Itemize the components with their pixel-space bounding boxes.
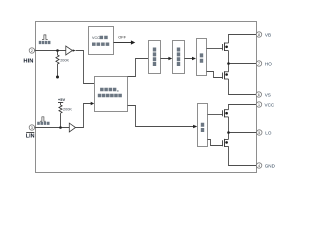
- svg-text:HIN: HIN: [23, 58, 33, 64]
- wire GND rail: [229, 146, 257, 165]
- wire U2 bottom output to low-side driver with arrow: [128, 106, 198, 129]
- svg-text:7: 7: [258, 62, 260, 66]
- node HO junction: [227, 62, 230, 65]
- GND label: [265, 163, 276, 168]
- wire VCC rail: [229, 105, 257, 110]
- VB label: [265, 32, 271, 37]
- resistor R1 200K: [56, 51, 59, 77]
- svg-text:VB: VB: [265, 32, 271, 37]
- pin 8 VB terminal: [256, 32, 261, 37]
- svg-text:6: 6: [258, 93, 260, 97]
- svg-text:+5V: +5V: [58, 97, 66, 102]
- svg-text:4: 4: [258, 164, 260, 168]
- svg-text:5: 5: [258, 131, 260, 135]
- LO label: [265, 130, 272, 135]
- pin 7 HO terminal: [256, 61, 261, 66]
- R2 value 200K: [63, 108, 72, 112]
- wire HO rail: [229, 51, 257, 72]
- node LO junction: [227, 131, 230, 134]
- svg-text:LO: LO: [265, 130, 272, 135]
- wire U6 to Q4 gate (stepped): [208, 140, 223, 146]
- wire HIN to buffer: [35, 50, 66, 52]
- svg-text:HO: HO: [265, 61, 272, 66]
- wire A1 to logic box: [76, 51, 95, 84]
- svg-text:OFF: OFF: [118, 35, 126, 40]
- VS label: [265, 92, 271, 97]
- pin 4 GND terminal: [256, 163, 261, 168]
- VCC label: [265, 102, 275, 107]
- wire U5 to Q1 gate: [207, 48, 223, 50]
- pulse input symbol (HIN): [42, 35, 48, 40]
- svg-text:GND: GND: [265, 163, 276, 168]
- R1 ground dot: [56, 76, 59, 79]
- arrow U4 to U5: [185, 57, 197, 60]
- pin 3 LIN terminal: [29, 125, 34, 130]
- OFF output arrow: [114, 35, 136, 45]
- transistor Q4 (low-side lower MOSFET): [223, 139, 229, 147]
- IC outer border: [36, 22, 257, 173]
- block U5: high-side output driver 输出: [197, 39, 207, 76]
- wire LIN to buffer: [35, 127, 70, 129]
- wire U6 to Q3 gate: [208, 114, 223, 116]
- buffer A1 (HIN): [66, 46, 76, 55]
- block U6: low-side output driver 输出: [198, 104, 208, 147]
- pulse input symbol (LIN): [40, 117, 46, 121]
- pin 6 VS terminal: [256, 92, 261, 97]
- wire U2 top output to level shifter: [128, 59, 149, 77]
- svg-text:2: 2: [31, 49, 33, 53]
- svg-text:8: 8: [258, 33, 260, 37]
- LIN label (active low, overline): [26, 133, 35, 140]
- transistor Q3 (low-side upper MOSFET): [223, 109, 229, 117]
- svg-text:VS: VS: [265, 92, 271, 97]
- resistor R2 200K pull-up: [59, 105, 62, 128]
- HIN label: [23, 58, 33, 64]
- HO label: [265, 61, 272, 66]
- pin 5 LO terminal: [257, 130, 262, 135]
- block U4: pulse filter 脉冲滤波: [173, 41, 185, 74]
- transistor Q2 (high-side lower MOSFET): [223, 71, 229, 79]
- svg-text:VCC: VCC: [265, 102, 275, 107]
- label 逻辑输入 (HIN): [39, 41, 51, 44]
- R1 value 200K: [60, 58, 69, 62]
- svg-text:VCC: VCC: [92, 36, 100, 40]
- wire LO rail: [229, 117, 257, 139]
- svg-text:LIN: LIN: [26, 134, 35, 140]
- node junction LIN/R2: [59, 126, 62, 129]
- buffer A2 (LIN): [69, 123, 75, 132]
- node junction HIN/R1: [56, 49, 59, 52]
- wire VB rail: [229, 35, 257, 44]
- svg-text:3: 3: [31, 126, 33, 130]
- label 逻辑输入 (LIN): [37, 122, 49, 125]
- wire A2 to logic box with arrow: [76, 102, 95, 128]
- svg-text:1: 1: [258, 103, 260, 107]
- pin 1 VCC terminal: [256, 102, 261, 107]
- svg-text:200K: 200K: [63, 108, 72, 112]
- +5V supply: [58, 97, 66, 105]
- svg-text:200K: 200K: [60, 58, 69, 62]
- arrow U3 to U4: [161, 57, 173, 60]
- block U1: VCC undervoltage shutdown protection: [89, 27, 114, 55]
- wire VS rail: [229, 79, 257, 95]
- transistor Q1 (high-side upper MOSFET): [223, 43, 229, 52]
- block U2: latch / dead-time circuit: [95, 77, 128, 112]
- block U3: level shift 电平位移: [149, 41, 161, 74]
- pin 2 HIN terminal: [29, 48, 34, 53]
- wire U5 to Q2 gate (stepped): [207, 72, 223, 78]
